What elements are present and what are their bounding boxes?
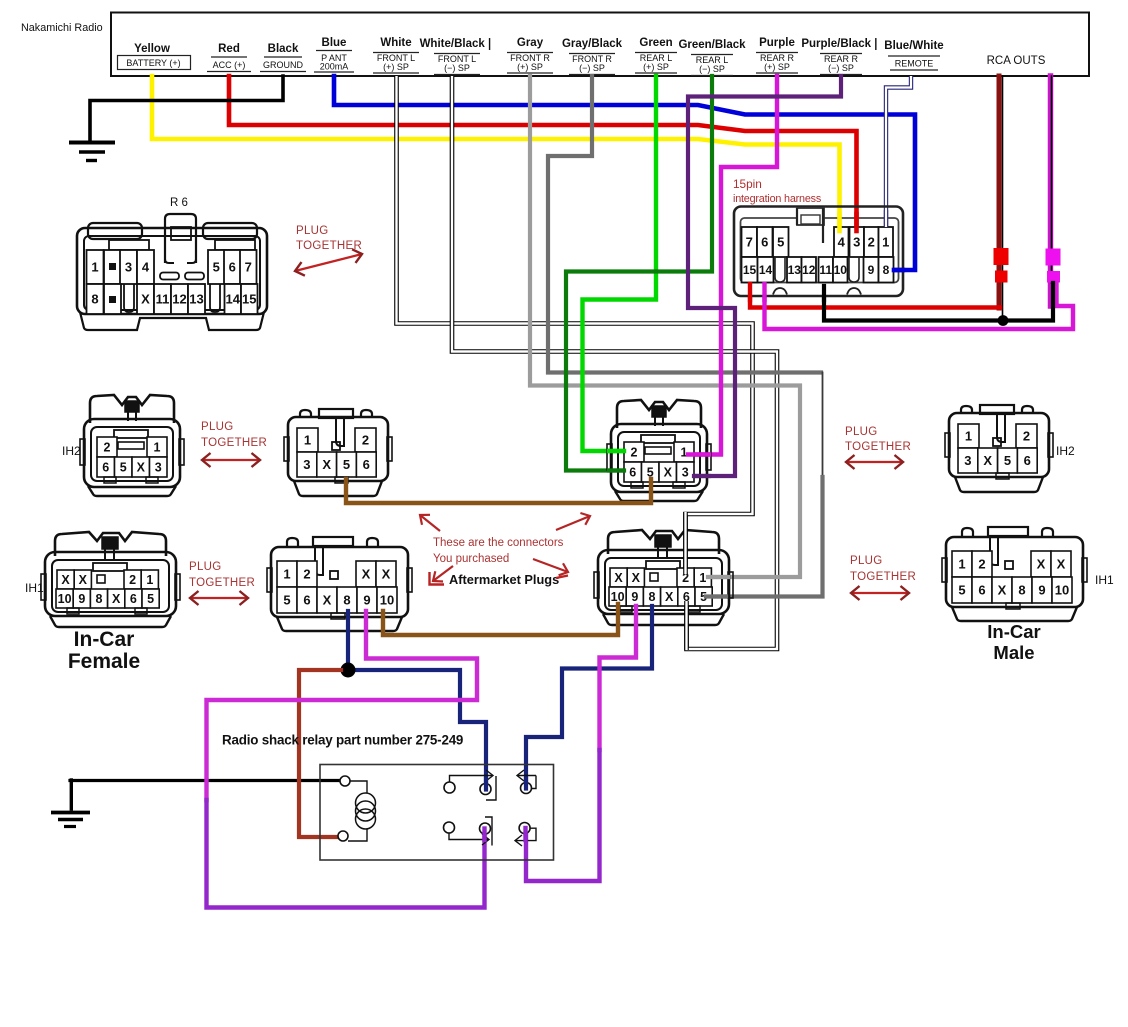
svg-text:X: X: [362, 567, 371, 582]
svg-text:X: X: [137, 461, 146, 475]
svg-text:TOGETHER: TOGETHER: [845, 441, 911, 453]
svg-text:X: X: [112, 592, 121, 606]
wire brown IH2 pin5 jumper: [346, 479, 651, 503]
svg-text:1: 1: [699, 571, 706, 585]
wire yellow tail into harness pin 4: [837, 214, 842, 231]
label Nakamichi Radio: [21, 22, 103, 34]
wire white/black tail into IH1 pin 6: [684, 601, 689, 650]
svg-text:Nakamichi Radio: Nakamichi Radio: [21, 22, 103, 34]
annotation PLUG TOGETHER (row2 left): [189, 561, 255, 605]
svg-text:8: 8: [1018, 583, 1025, 598]
svg-text:1: 1: [958, 557, 965, 572]
svg-text:In-Car: In-Car: [74, 628, 135, 651]
svg-text:11: 11: [156, 292, 170, 307]
svg-text:IH2: IH2: [1056, 444, 1075, 458]
wire magenta tail into IH2 pin 1: [688, 452, 709, 456]
svg-text:9: 9: [868, 263, 875, 277]
junction dot RCA shield: [998, 315, 1009, 326]
svg-text:TOGETHER: TOGETHER: [201, 437, 267, 449]
label 15pin integration harness: [733, 177, 822, 205]
svg-text:BATTERY (+): BATTERY (+): [126, 58, 180, 68]
ground symbol top left: [69, 143, 115, 161]
svg-text:5: 5: [777, 235, 784, 250]
svg-text:10: 10: [58, 592, 72, 606]
svg-text:1: 1: [304, 433, 311, 448]
svg-text:6: 6: [303, 593, 310, 608]
wire gray FRONT R + to IH1 pin 1: [530, 76, 800, 577]
ground symbol bottom left: [51, 780, 90, 827]
svg-text:IH1: IH1: [1095, 573, 1114, 587]
svg-text:5: 5: [213, 260, 220, 275]
svg-text:12: 12: [802, 263, 816, 277]
svg-text:5: 5: [147, 592, 154, 606]
annotation arrow down-left corner: [430, 566, 454, 585]
label Blue P.ANT: [314, 37, 354, 72]
svg-text:X: X: [998, 583, 1007, 598]
wire remote tail into harness pin 1: [884, 210, 888, 227]
svg-text:8: 8: [649, 590, 656, 604]
label Gray/Black FRONT R (-) SP: [562, 38, 623, 75]
wire white/black FRONT L - (double line) to IH1 pin 6: [452, 76, 777, 649]
svg-text:IH1: IH1: [25, 581, 44, 595]
svg-text:2: 2: [303, 567, 310, 582]
relay box: [320, 765, 554, 861]
label White/Black FRONT L (-) SP: [420, 37, 495, 75]
svg-text:Purple/Black❘: Purple/Black❘: [801, 37, 880, 51]
svg-text:8: 8: [343, 593, 350, 608]
svg-text:15: 15: [242, 292, 256, 307]
wire gray tail into IH1 pin 1: [708, 575, 728, 579]
wire gray/black FRONT R - to IH1 pin 5: [548, 76, 823, 597]
connector IH1 far-right (In-Car Male): [942, 527, 1087, 621]
svg-text:PLUG: PLUG: [189, 561, 222, 573]
svg-text:TOGETHER: TOGETHER: [189, 577, 255, 589]
svg-text:Green: Green: [639, 37, 672, 49]
RCA cable right (magenta with black core): [1051, 76, 1052, 306]
svg-text:6: 6: [629, 466, 636, 480]
svg-text:Green/Black: Green/Black: [678, 39, 746, 51]
svg-text:9: 9: [78, 592, 85, 606]
svg-text:(+) SP: (+) SP: [517, 62, 543, 72]
svg-text:integration harness: integration harness: [733, 193, 822, 205]
svg-text:R 6: R 6: [170, 197, 188, 209]
svg-text:7: 7: [245, 260, 252, 275]
svg-text:Blue/White: Blue/White: [884, 40, 943, 52]
svg-text:12: 12: [172, 292, 186, 307]
svg-text:PLUG: PLUG: [296, 225, 329, 237]
label IH1 left: [25, 581, 44, 595]
svg-text:X: X: [79, 573, 88, 587]
svg-text:5: 5: [1004, 453, 1011, 468]
RCA plug left red blocks: [994, 248, 1009, 283]
wire red tail into harness pin 3: [854, 214, 859, 231]
wire magenta IH1 left pin9 loop to relay: [207, 611, 485, 908]
wire white FRONT L + (double line) to IH1 pin 2: [397, 76, 753, 574]
svg-text:8: 8: [91, 292, 98, 307]
svg-text:TOGETHER: TOGETHER: [850, 571, 916, 583]
connector IH2 far-left (in-car female): [80, 395, 184, 496]
connector IH2 right-middle (radio side): [607, 400, 711, 501]
wire black GROUND to chassis ground: [90, 76, 283, 142]
wire purple tail into IH2 pin 3: [694, 474, 709, 478]
svg-text:Gray/Black: Gray/Black: [562, 38, 623, 50]
annotation arrow up-left: [420, 515, 440, 531]
svg-text:Aftermarket Plugs: Aftermarket Plugs: [449, 572, 559, 587]
svg-text:1: 1: [146, 573, 153, 587]
annotation PLUG TOGETHER (row1 left): [201, 421, 267, 467]
wire purple REAR R + (magenta) to IH2 pin 1: [688, 76, 777, 455]
svg-text:14: 14: [226, 292, 241, 307]
svg-text:6: 6: [102, 461, 109, 475]
svg-text:White: White: [380, 37, 411, 49]
wire green REAR L + to IH2 pin 2: [583, 76, 657, 451]
svg-text:3: 3: [303, 457, 310, 472]
svg-text:PLUG: PLUG: [845, 426, 878, 438]
svg-text:REMOTE: REMOTE: [895, 59, 934, 69]
wire red ACC to harness pin 3: [229, 76, 857, 231]
svg-text:ACC (+): ACC (+): [213, 60, 246, 70]
annotation arrow up-right: [556, 513, 590, 530]
svg-text:15pin: 15pin: [733, 177, 762, 191]
svg-text:3: 3: [682, 466, 689, 480]
relay coil: [338, 776, 376, 841]
svg-text:IH2: IH2: [62, 444, 81, 458]
wire red harness pin 15 to RCA left: [750, 298, 1000, 308]
wire purple tip into relay contact I: [523, 828, 527, 840]
connector IH2 left-middle (aftermarket plug): [284, 409, 392, 496]
svg-text:Radio shack relay part number: Radio shack relay part number 275-249: [222, 733, 463, 748]
svg-text:Red: Red: [218, 43, 240, 55]
label IH1 right: [1095, 573, 1114, 587]
svg-text:1: 1: [283, 567, 290, 582]
svg-text:X: X: [1057, 557, 1066, 572]
label Yellow BATTERY(+): [118, 43, 191, 70]
label Purple/Black REAR R (-) SP: [801, 37, 880, 75]
svg-text:(−) SP: (−) SP: [579, 63, 605, 73]
connector IH1 left-middle (aftermarket plug): [267, 537, 412, 631]
label Green REAR L (+) SP: [635, 37, 677, 73]
wire green/black tail into IH2 pin 6: [609, 468, 624, 472]
svg-text:13: 13: [788, 263, 802, 277]
connector R6 (radio 15-pin): [77, 197, 267, 330]
svg-text:1: 1: [154, 441, 161, 455]
svg-text:6: 6: [229, 260, 236, 275]
svg-text:3: 3: [125, 260, 132, 275]
svg-text:11: 11: [819, 263, 832, 277]
label Purple REAR R (+) SP: [756, 37, 798, 73]
svg-text:Female: Female: [68, 650, 140, 673]
svg-text:(+) SP: (+) SP: [643, 62, 669, 72]
svg-text:X: X: [141, 292, 150, 307]
svg-text:3: 3: [853, 235, 860, 250]
annotation PLUG TOGETHER (row2 right): [850, 555, 916, 600]
svg-text:6: 6: [1024, 453, 1031, 468]
svg-text:13: 13: [189, 292, 203, 307]
label Radio shack relay part number 275-249: [222, 733, 463, 748]
svg-text:9: 9: [631, 590, 638, 604]
svg-text:6: 6: [363, 457, 370, 472]
wire dark red junction to relay coil: [299, 670, 341, 837]
svg-text:3: 3: [964, 453, 971, 468]
label Green/Black REAR L (-) SP: [678, 39, 746, 76]
wire blue tail into harness pin 8: [894, 268, 903, 273]
label In-Car Male: [987, 621, 1040, 663]
annotation PLUG TOGETHER (R6): [295, 225, 362, 276]
wire purple/black REAR R - to IH2 pin 3: [688, 76, 841, 476]
svg-text:X: X: [664, 466, 673, 480]
svg-text:X: X: [614, 571, 623, 585]
wire black harness pin 11 to RCA right shield: [824, 283, 1053, 321]
svg-text:1: 1: [965, 429, 972, 444]
svg-text:X: X: [632, 571, 641, 585]
label IH2 right: [1056, 444, 1075, 458]
wire magenta tail from harness pin 14: [762, 284, 766, 300]
svg-text:PLUG: PLUG: [201, 421, 234, 433]
annotation PLUG TOGETHER (row1 right): [845, 426, 911, 469]
svg-text:PLUG: PLUG: [850, 555, 883, 567]
svg-text:5: 5: [343, 457, 350, 472]
svg-text:Black: Black: [268, 43, 299, 55]
wire magenta IH1 right pin9 to relay: [526, 606, 636, 881]
svg-text:7: 7: [746, 235, 753, 250]
svg-text:2: 2: [1023, 429, 1030, 444]
label Gray FRONT R (+) SP: [507, 37, 553, 73]
svg-text:(−) SP: (−) SP: [699, 64, 725, 74]
junction dot navy/dark-red: [341, 663, 356, 678]
svg-text:GROUND: GROUND: [263, 60, 303, 70]
svg-text:Yellow: Yellow: [134, 43, 170, 55]
svg-text:White/Black❘: White/Black❘: [420, 37, 495, 51]
svg-text:X: X: [323, 593, 332, 608]
svg-text:5: 5: [958, 583, 965, 598]
svg-text:9: 9: [363, 593, 370, 608]
Nakamichi Radio head unit box: [111, 13, 1089, 77]
svg-text:1: 1: [91, 260, 98, 275]
connector 15-pin integration harness: [734, 207, 903, 297]
svg-text:2: 2: [978, 557, 985, 572]
wire purple tip into relay contact H: [482, 829, 486, 841]
wire red tail from harness pin 15: [748, 284, 752, 300]
svg-text:X: X: [382, 567, 391, 582]
label Blue/White REMOTE: [884, 40, 943, 69]
svg-text:In-Car: In-Car: [987, 621, 1040, 642]
wire black ground to relay coil: [70, 779, 340, 782]
wire navy tip into relay contact B: [484, 779, 488, 790]
svg-text:2: 2: [129, 573, 136, 587]
wire brown IH1 pin10 jumper: [383, 604, 618, 635]
wire yellow BATTERY to harness pin 4: [152, 76, 840, 230]
svg-text:8: 8: [96, 592, 103, 606]
label IH2 left: [62, 444, 81, 458]
svg-text:These are the connectors: These are the connectors: [433, 537, 564, 549]
wire black tail from harness pin 11: [822, 286, 826, 300]
wire green tail into IH2 pin 2: [609, 449, 624, 453]
svg-text:200mA: 200mA: [320, 62, 349, 72]
wire navy tip into relay contact F: [524, 779, 528, 789]
svg-text:4: 4: [142, 260, 150, 275]
label Black GROUND: [260, 43, 306, 72]
svg-text:5: 5: [120, 461, 127, 475]
label Aftermarket Plugs: [449, 572, 559, 587]
wire navy IH1 left pin8 to relay contact: [348, 611, 486, 786]
svg-text:(−) SP: (−) SP: [828, 63, 854, 73]
svg-text:X: X: [983, 453, 992, 468]
annotation These are the connectors: [433, 537, 564, 565]
svg-text:Gray: Gray: [517, 37, 544, 49]
svg-text:10: 10: [834, 263, 848, 277]
label RCA OUTS: [987, 55, 1046, 67]
label In-Car Female: [68, 628, 140, 673]
svg-text:You purchased: You purchased: [433, 553, 509, 565]
svg-text:8: 8: [883, 263, 890, 277]
svg-text:(−) SP: (−) SP: [444, 63, 470, 73]
svg-text:X: X: [1037, 557, 1046, 572]
svg-text:15: 15: [743, 263, 757, 277]
connector IH1 far-left (In-Car Female): [41, 532, 180, 627]
svg-text:14: 14: [759, 263, 773, 277]
svg-text:Male: Male: [993, 642, 1034, 663]
connector IH2 far-right (in-car male): [945, 405, 1053, 492]
RCA plug right magenta blocks: [1046, 249, 1061, 283]
annotation arrow down-right: [533, 559, 568, 578]
wire blue/white REMOTE (double line) to harness pin 1: [886, 76, 911, 227]
svg-text:X: X: [61, 573, 70, 587]
svg-text:(+) SP: (+) SP: [383, 62, 409, 72]
svg-text:9: 9: [1038, 583, 1045, 598]
svg-text:2: 2: [868, 235, 875, 250]
svg-text:10: 10: [1055, 583, 1069, 598]
svg-text:2: 2: [104, 441, 111, 455]
svg-text:Blue: Blue: [322, 37, 347, 49]
svg-text:4: 4: [838, 235, 846, 250]
RCA cable left (dark red with black core): [999, 76, 1003, 321]
svg-text:5: 5: [283, 593, 290, 608]
label Red ACC(+): [207, 43, 251, 72]
label White FRONT L (+) SP: [373, 37, 419, 73]
wire white tail into IH1 pin 2: [683, 512, 688, 574]
svg-text:2: 2: [631, 446, 638, 460]
wire magenta harness pin 14 to RCA right: [765, 283, 1074, 329]
svg-text:6: 6: [130, 592, 137, 606]
svg-text:10: 10: [380, 593, 394, 608]
wire green/black REAR L - to IH2 pin 6: [566, 76, 712, 471]
wire gray/black tail into IH1 pin 5: [706, 594, 726, 598]
svg-text:X: X: [665, 590, 674, 604]
svg-text:3: 3: [155, 461, 162, 475]
svg-text:2: 2: [362, 433, 369, 448]
connector IH1 right-middle (radio side): [594, 530, 733, 625]
relay contacts bottom row: [444, 817, 537, 846]
svg-text:1: 1: [882, 235, 889, 250]
svg-text:6: 6: [761, 235, 768, 250]
svg-text:Purple: Purple: [759, 37, 795, 49]
relay contacts top row: [444, 770, 536, 800]
wire blue P.ANT to harness pin 8: [334, 76, 915, 270]
wire navy IH1 right pin8 to relay contact: [526, 606, 652, 786]
svg-text:RCA OUTS: RCA OUTS: [987, 55, 1046, 67]
svg-text:X: X: [322, 457, 331, 472]
svg-text:(+) SP: (+) SP: [764, 62, 790, 72]
svg-text:6: 6: [978, 583, 985, 598]
